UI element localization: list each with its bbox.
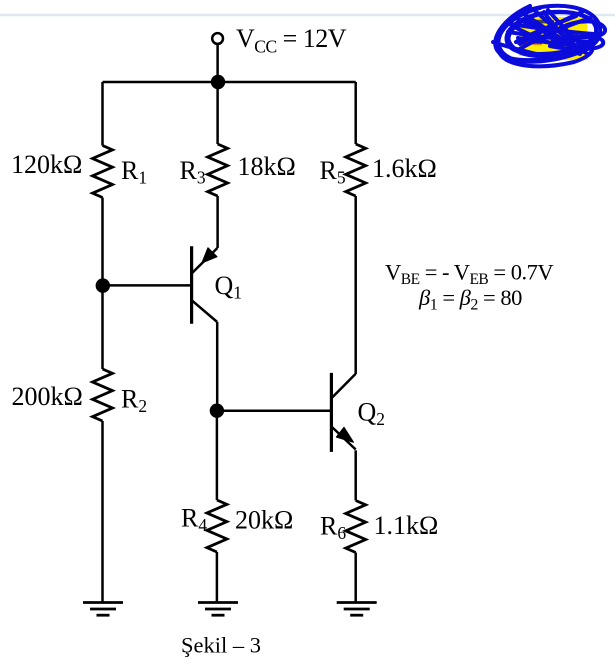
wire base Q1	[103, 284, 192, 287]
wire left column upper	[101, 82, 104, 146]
ground right	[337, 603, 377, 616]
svg-text:VCC = 12V: VCC = 12V	[236, 24, 347, 57]
wire top horizontal rail	[103, 81, 356, 84]
transistor Q1	[192, 246, 218, 323]
resistor R5	[346, 144, 366, 196]
wire R4 to ground	[216, 552, 219, 602]
wire R5 to Q2 collector	[354, 196, 357, 374]
svg-text:18kΩ: 18kΩ	[238, 152, 296, 181]
wire Q1 collector down	[216, 322, 219, 411]
svg-text:20kΩ: 20kΩ	[235, 506, 293, 535]
node base Q1	[96, 278, 110, 292]
faint horizontal rule	[0, 14, 615, 17]
resistor R4	[207, 500, 227, 552]
wire left column lower	[101, 421, 104, 602]
resistor R2	[93, 369, 113, 421]
wire node down to R4	[216, 411, 219, 500]
wire R6 to ground	[354, 553, 357, 603]
wire middle column upper	[216, 82, 219, 144]
ground left	[83, 603, 123, 616]
wire R3 to Q1 emitter	[216, 196, 219, 248]
red mark	[517, 42, 542, 45]
wire right column upper	[354, 82, 357, 144]
wire Q2 emitter down	[354, 450, 357, 500]
svg-text:1.6kΩ: 1.6kΩ	[372, 154, 437, 183]
yellow highlight patch	[519, 17, 588, 60]
node R4/base Q2	[210, 404, 224, 418]
wire left column mid	[101, 198, 104, 370]
svg-text:120kΩ: 120kΩ	[11, 150, 82, 179]
resistor R1	[93, 146, 113, 198]
svg-text:1.1kΩ: 1.1kΩ	[374, 511, 439, 540]
Vcc terminal circle	[212, 33, 223, 44]
wire Vcc lead	[216, 44, 219, 82]
resistor R3	[208, 144, 228, 196]
junction top node	[211, 75, 225, 89]
resistor R6	[346, 501, 366, 553]
dark mark	[524, 21, 554, 22]
transistor Q2	[331, 373, 355, 452]
wire node to Q2 base	[217, 409, 332, 412]
svg-text:200kΩ: 200kΩ	[12, 382, 83, 411]
ground middle	[198, 603, 238, 616]
blue pen scribble	[493, 6, 605, 67]
svg-text:Şekil – 3: Şekil – 3	[181, 633, 261, 658]
